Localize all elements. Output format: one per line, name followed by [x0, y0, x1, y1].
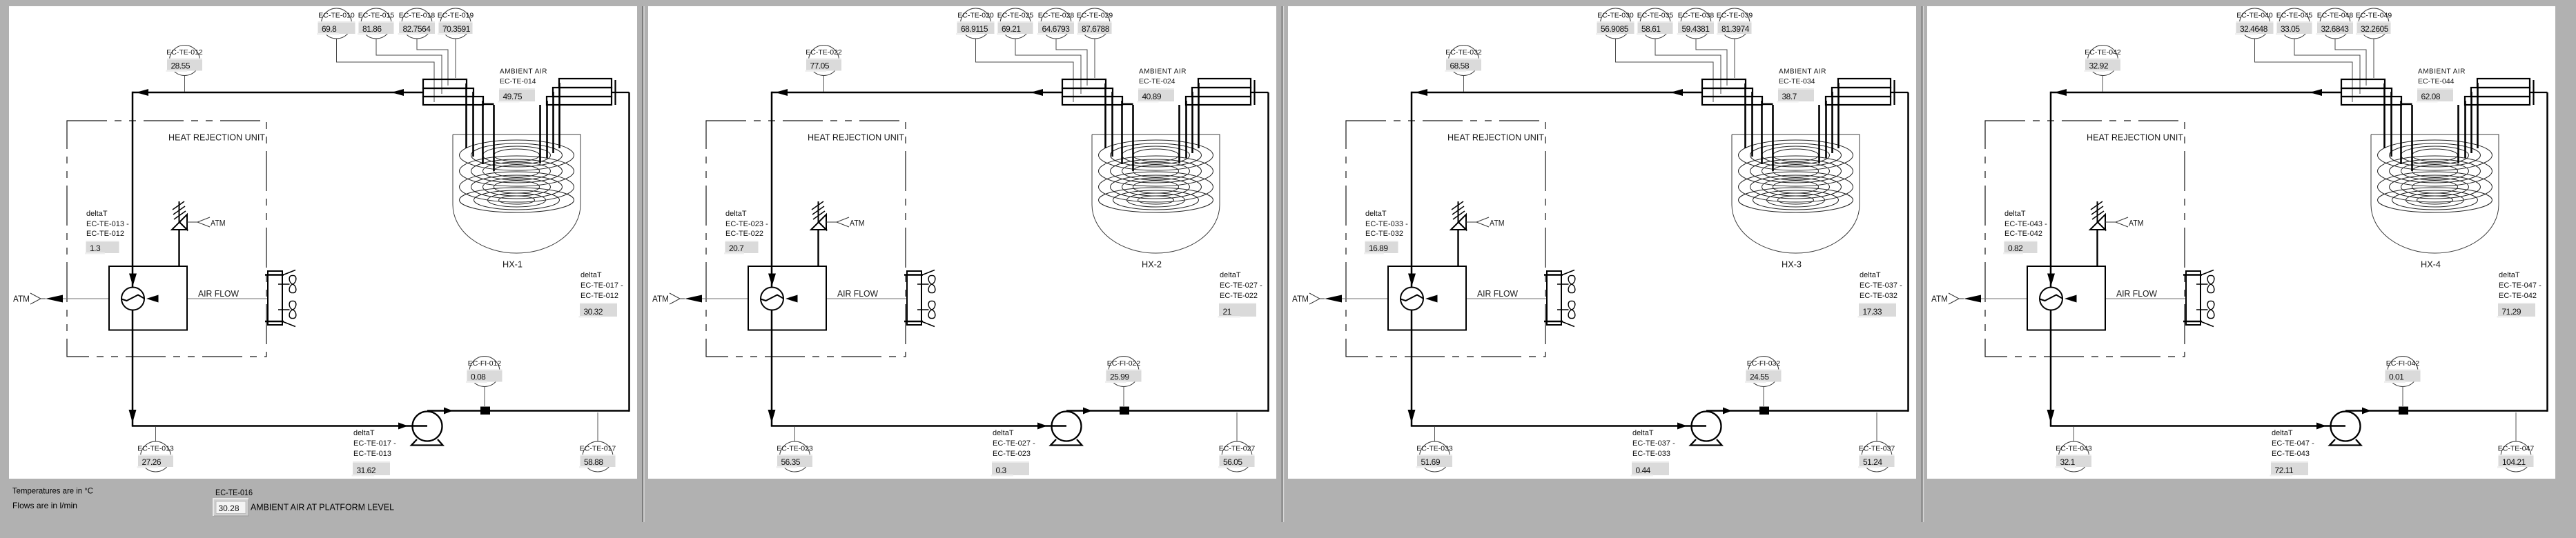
- svg-text:EC-FI-032: EC-FI-032: [1747, 359, 1781, 368]
- left bank down tubes panel 2: [1106, 83, 1133, 171]
- flow arrow top near corner panel 4: [2054, 89, 2067, 96]
- svg-text:deltaT: deltaT: [1220, 271, 1241, 279]
- deltaT left value panel 4: [2003, 241, 2038, 255]
- svg-text:EC-TE-042: EC-TE-042: [2499, 292, 2537, 300]
- svg-text:21: 21: [1223, 307, 1232, 317]
- flow arrow left riser down panel 1: [129, 410, 137, 423]
- ATM exhaust arrowhead panel 1: [46, 295, 63, 303]
- flow arrow top near HX panel 1: [391, 89, 404, 96]
- HX vessel outline panel 1: [453, 134, 580, 253]
- svg-text:EC-TE-013: EC-TE-013: [137, 445, 174, 453]
- svg-text:deltaT: deltaT: [1860, 271, 1881, 279]
- svg-text:87.6788: 87.6788: [1082, 24, 1110, 34]
- svg-text:EC-TE-013: EC-TE-013: [353, 450, 391, 458]
- vent stub panel 4: [2097, 201, 2098, 222]
- svg-text:EC-TE-027: EC-TE-027: [1219, 445, 1256, 453]
- svg-text:EC-TE-025: EC-TE-025: [997, 12, 1034, 20]
- pipe pump outlet run panel 4: [2345, 410, 2548, 412]
- svg-text:0.82: 0.82: [2008, 243, 2023, 253]
- svg-text:ATM: ATM: [850, 219, 865, 228]
- vent stub panel 3: [1458, 201, 1459, 222]
- left tube bank panel 1: [423, 79, 483, 105]
- svg-text:30.32: 30.32: [584, 307, 603, 317]
- svg-text:EC-TE-033 -: EC-TE-033 -: [1365, 220, 1408, 228]
- air flow line panel 4: [1981, 298, 2186, 299]
- svg-text:HEAT REJECTION UNIT: HEAT REJECTION UNIT: [808, 132, 904, 143]
- svg-text:EC-TE-042: EC-TE-042: [2085, 48, 2121, 57]
- air flow line panel 1: [63, 298, 268, 299]
- svg-text:EC-TE-024: EC-TE-024: [1139, 77, 1175, 86]
- svg-text:70.3591: 70.3591: [442, 24, 471, 34]
- svg-text:EC-TE-032: EC-TE-032: [1860, 292, 1897, 300]
- flow sensor EC-FI-042: [2384, 357, 2421, 407]
- leader lines top sensors panel 2: [976, 39, 1095, 102]
- sensor EC-TE-042: [2085, 46, 2121, 92]
- svg-text:AMBIENT AIR: AMBIENT AIR: [2418, 68, 2466, 76]
- panel 2 background: [648, 6, 1276, 479]
- flow arrow top near corner panel 1: [136, 89, 148, 96]
- deltaT bottom value panel 4: [2270, 461, 2309, 477]
- louver box panel 1: [268, 271, 282, 325]
- flow arrow top near HX panel 2: [1031, 89, 1043, 96]
- svg-text:deltaT: deltaT: [580, 271, 602, 279]
- flow element square panel 4: [2399, 407, 2408, 415]
- vent valve triangles panel 1: [172, 222, 187, 230]
- svg-text:68.58: 68.58: [1450, 61, 1470, 70]
- HX coil panel 1: [460, 140, 574, 212]
- svg-text:64.6793: 64.6793: [1042, 24, 1071, 34]
- svg-text:AMBIENT AIR: AMBIENT AIR: [1139, 68, 1187, 76]
- leader lines top sensors panel 1: [337, 39, 456, 102]
- svg-text:EC-TE-017: EC-TE-017: [580, 445, 616, 453]
- svg-text:EC-TE-043: EC-TE-043: [2272, 450, 2310, 458]
- sensor EC-TE-049: [2356, 8, 2392, 39]
- svg-text:EC-TE-043: EC-TE-043: [2056, 445, 2092, 453]
- flow arrow bottom before pump panel 4: [2316, 423, 2326, 430]
- svg-text:EC-TE-022: EC-TE-022: [1220, 292, 1258, 300]
- svg-text:51.24: 51.24: [1863, 457, 1882, 467]
- flow arrow bottom before pump panel 1: [398, 423, 408, 430]
- louver box panel 3: [1547, 271, 1561, 325]
- pipe left riser panel 4: [2050, 92, 2052, 426]
- pipe left riser panel 2: [771, 92, 773, 426]
- ATM exhaust wedge panel 2: [670, 293, 680, 304]
- flow arrow top near HX panel 4: [2310, 89, 2322, 96]
- pipe pump outlet run panel 3: [1706, 410, 1909, 412]
- deltaT right value panel 3: [1858, 303, 1897, 318]
- sensor EC-TE-033: [1416, 427, 1453, 472]
- svg-text:32.1: 32.1: [2060, 457, 2076, 467]
- svg-text:EC-TE-033: EC-TE-033: [1416, 445, 1453, 453]
- pipe HX outlet connector panel 2: [1251, 92, 1269, 93]
- svg-text:EC-TE-030: EC-TE-030: [1597, 12, 1634, 20]
- sensor EC-TE-035: [1637, 8, 1673, 39]
- sensor EC-TE-028: [1037, 8, 1075, 39]
- svg-text:EC-TE-017 -: EC-TE-017 -: [353, 439, 396, 448]
- louver box panel 2: [907, 271, 921, 325]
- svg-text:EC-TE-042: EC-TE-042: [2004, 230, 2042, 238]
- ATM exhaust wedge panel 4: [1949, 293, 1959, 304]
- svg-text:EC-TE-037 -: EC-TE-037 -: [1860, 281, 1902, 290]
- flow arrow left riser down panel 2: [768, 410, 776, 423]
- svg-text:ATM: ATM: [13, 295, 30, 304]
- HX coil panel 3: [1739, 140, 1853, 212]
- svg-text:EC-FI-022: EC-FI-022: [1107, 359, 1141, 368]
- sensor EC-TE-032: [1445, 46, 1482, 92]
- svg-text:EC-TE-049: EC-TE-049: [2356, 12, 2392, 20]
- vent hatches panel 2: [812, 201, 825, 219]
- svg-text:ATM: ATM: [652, 295, 669, 304]
- svg-text:59.4381: 59.4381: [1682, 24, 1710, 34]
- svg-text:33.05: 33.05: [2281, 24, 2300, 34]
- svg-text:EC-TE-020: EC-TE-020: [957, 12, 994, 20]
- svg-text:56.35: 56.35: [781, 457, 801, 467]
- deltaT right value panel 1: [579, 303, 618, 318]
- pipe bottom run to pump panel 2: [771, 425, 1066, 427]
- svg-text:deltaT: deltaT: [1365, 210, 1387, 218]
- pipe right riser panel 4: [2546, 92, 2548, 412]
- svg-text:24.55: 24.55: [1750, 372, 1769, 381]
- flow arrow left riser down panel 4: [2047, 410, 2055, 423]
- flow sensor EC-FI-032: [1745, 357, 1782, 407]
- flow arrow after pump panel 2: [1083, 408, 1092, 415]
- HX vessel outline panel 4: [2371, 134, 2499, 253]
- pipe HX outlet connector panel 3: [1891, 92, 1909, 93]
- sensor EC-TE-023: [777, 427, 813, 472]
- svg-text:EC-TE-032: EC-TE-032: [1445, 48, 1482, 57]
- ATM exhaust arrowhead panel 2: [685, 295, 702, 303]
- ambient air value EC-TE-024: [1138, 88, 1175, 103]
- svg-text:58.61: 58.61: [1641, 24, 1661, 34]
- left tube bank panel 4: [2341, 79, 2401, 105]
- svg-text:EC-TE-034: EC-TE-034: [1779, 77, 1815, 86]
- svg-text:56.05: 56.05: [1223, 457, 1242, 467]
- flow element square panel 1: [480, 407, 490, 415]
- arrow into fan panel 3: [1408, 274, 1416, 286]
- svg-text:deltaT: deltaT: [2499, 271, 2520, 279]
- svg-text:deltaT: deltaT: [725, 210, 747, 218]
- vent stub panel 2: [818, 201, 819, 222]
- sensor EC-TE-022: [806, 46, 842, 92]
- svg-text:EC-TE-032: EC-TE-032: [1365, 230, 1403, 238]
- louver lower fan glyph panel 2: [917, 301, 935, 318]
- svg-text:20.7: 20.7: [729, 243, 744, 253]
- svg-text:AIR FLOW: AIR FLOW: [837, 288, 879, 299]
- panel divider at x=931: [642, 6, 643, 522]
- svg-text:EC-FI-042: EC-FI-042: [2386, 359, 2420, 368]
- svg-text:EC-TE-038: EC-TE-038: [1678, 12, 1715, 20]
- svg-text:EC-TE-028: EC-TE-028: [1038, 12, 1075, 20]
- svg-text:HX-4: HX-4: [2421, 260, 2441, 270]
- ATM exhaust arrowhead panel 4: [1964, 295, 1981, 303]
- louver upper fan glyph panel 3: [1557, 275, 1575, 292]
- louver lower fan glyph panel 4: [2196, 301, 2214, 318]
- ambient air value EC-TE-034: [1777, 88, 1815, 103]
- svg-text:EC-TE-048: EC-TE-048: [2317, 12, 2354, 20]
- svg-text:EC-TE-012: EC-TE-012: [580, 292, 618, 300]
- vent ATM wedge panel 3: [1476, 217, 1489, 227]
- left tube bank panel 3: [1702, 79, 1762, 105]
- svg-text:EC-TE-023: EC-TE-023: [993, 450, 1031, 458]
- pipe top run panel 1: [133, 92, 423, 94]
- deltaT right value panel 4: [2497, 303, 2536, 318]
- right bank down tubes panel 3: [1819, 83, 1839, 163]
- louver lower fan glyph panel 1: [278, 301, 296, 318]
- flow arrow bottom before pump panel 2: [1037, 423, 1047, 430]
- pipe right riser panel 3: [1907, 92, 1909, 412]
- HX vessel outline panel 3: [1732, 134, 1860, 253]
- svg-text:49.75: 49.75: [503, 92, 523, 101]
- fan impeller circle panel 3: [1401, 288, 1423, 310]
- svg-text:AMBIENT AIR: AMBIENT AIR: [500, 68, 547, 76]
- flow element square panel 2: [1120, 407, 1129, 415]
- sensor EC-TE-018: [398, 8, 436, 39]
- arrow into fan panel 2: [768, 274, 776, 286]
- fan impeller circle panel 1: [121, 288, 144, 310]
- vent pipe panel 1: [178, 230, 179, 266]
- flow arrow bottom before pump panel 3: [1677, 423, 1687, 430]
- heat rejection unit dashed boundary panel 2: [706, 121, 906, 357]
- svg-text:30.28: 30.28: [219, 504, 240, 513]
- svg-text:69.8: 69.8: [322, 24, 337, 34]
- svg-text:EC-TE-027 -: EC-TE-027 -: [1220, 281, 1262, 290]
- svg-text:Temperatures are in °C: Temperatures are in °C: [12, 486, 93, 496]
- svg-text:72.11: 72.11: [2275, 466, 2294, 475]
- svg-text:HEAT REJECTION UNIT: HEAT REJECTION UNIT: [2087, 132, 2183, 143]
- air flow line panel 3: [1342, 298, 1547, 299]
- deltaT bottom value panel 2: [991, 461, 1030, 477]
- deltaT bottom value panel 3: [1631, 461, 1670, 477]
- svg-text:0.08: 0.08: [471, 372, 486, 381]
- numeric control EC-TE-016: [213, 499, 248, 516]
- heat rejection unit dashed boundary panel 4: [1985, 121, 2185, 357]
- fan impeller circle panel 2: [761, 288, 783, 310]
- sensor EC-TE-030: [1596, 8, 1635, 39]
- svg-text:deltaT: deltaT: [86, 210, 108, 218]
- svg-text:EC-TE-037 -: EC-TE-037 -: [1632, 439, 1675, 448]
- svg-text:EC-TE-019: EC-TE-019: [438, 12, 474, 20]
- pump P1 body: [413, 412, 442, 441]
- arrow air intake panel 1: [146, 295, 159, 303]
- HX coil panel 4: [2378, 140, 2492, 212]
- svg-text:EC-TE-022: EC-TE-022: [806, 48, 842, 57]
- deltaT bottom value panel 1: [352, 461, 391, 477]
- svg-text:EC-TE-039: EC-TE-039: [1717, 12, 1753, 20]
- pipe right riser panel 1: [628, 92, 630, 412]
- pipe pump outlet run panel 2: [1066, 410, 1269, 412]
- sensor EC-TE-029: [1077, 8, 1113, 39]
- left bank down tubes panel 4: [2385, 83, 2412, 171]
- right tube bank panel 3: [1826, 79, 1895, 105]
- ATM exhaust wedge panel 3: [1309, 293, 1320, 304]
- vent valve triangles panel 3: [1451, 222, 1466, 230]
- vent stub panel 1: [179, 201, 180, 222]
- svg-text:AIR FLOW: AIR FLOW: [1477, 288, 1519, 299]
- fan unit box panel 1: [109, 266, 187, 330]
- svg-text:16.89: 16.89: [1369, 243, 1388, 253]
- right bank down tubes panel 1: [540, 83, 560, 163]
- arrow air intake panel 4: [2065, 295, 2077, 303]
- svg-text:EC-TE-047: EC-TE-047: [2498, 445, 2535, 453]
- flow arrow left riser down panel 3: [1408, 410, 1416, 423]
- flow arrow top near corner panel 2: [775, 89, 788, 96]
- svg-text:EC-TE-010: EC-TE-010: [318, 12, 355, 20]
- left bank down tubes panel 1: [467, 83, 494, 171]
- panel 1 background: [9, 6, 637, 479]
- fan unit box panel 4: [2027, 266, 2105, 330]
- svg-text:27.26: 27.26: [142, 457, 162, 467]
- leader lines top sensors panel 3: [1616, 39, 1735, 102]
- louver lower fan glyph panel 3: [1557, 301, 1575, 318]
- svg-text:deltaT: deltaT: [2004, 210, 2026, 218]
- svg-text:EC-TE-037: EC-TE-037: [1859, 445, 1895, 453]
- svg-text:25.99: 25.99: [1110, 372, 1129, 381]
- vent hatches panel 4: [2091, 201, 2104, 219]
- fan unit box panel 2: [748, 266, 826, 330]
- sensor EC-TE-012: [166, 46, 203, 92]
- svg-text:82.7564: 82.7564: [403, 24, 431, 34]
- sensor EC-TE-038: [1677, 8, 1715, 39]
- flow arrow top near corner panel 3: [1415, 89, 1427, 96]
- left tube bank panel 2: [1062, 79, 1122, 105]
- ATM exhaust wedge panel 1: [30, 293, 41, 304]
- arrow into fan panel 1: [129, 274, 137, 286]
- sensor EC-TE-020: [956, 8, 995, 39]
- flow arrow after pump panel 1: [444, 408, 453, 415]
- ambient air value EC-TE-044: [2417, 88, 2454, 103]
- vent pipe panel 4: [2096, 230, 2098, 266]
- vent pipe panel 3: [1457, 230, 1458, 266]
- right bank down tubes panel 4: [2459, 83, 2478, 163]
- heat rejection unit dashed boundary panel 3: [1346, 121, 1545, 357]
- svg-text:HEAT REJECTION UNIT: HEAT REJECTION UNIT: [1447, 132, 1544, 143]
- vent hatches panel 3: [1452, 201, 1465, 219]
- svg-text:81.3974: 81.3974: [1721, 24, 1750, 34]
- vent ATM wedge panel 2: [837, 217, 849, 227]
- leader lines top sensors panel 4: [2255, 39, 2374, 102]
- svg-text:EC-TE-029: EC-TE-029: [1077, 12, 1113, 20]
- HX vessel outline panel 2: [1092, 134, 1220, 253]
- svg-text:32.4648: 32.4648: [2240, 24, 2268, 34]
- fan unit box panel 3: [1388, 266, 1466, 330]
- svg-text:ATM: ATM: [2129, 219, 2144, 228]
- svg-text:51.69: 51.69: [1421, 457, 1441, 467]
- pipe right riser panel 2: [1267, 92, 1269, 412]
- flow sensor EC-FI-022: [1105, 357, 1142, 407]
- svg-text:deltaT: deltaT: [2272, 429, 2293, 437]
- svg-text:AIR FLOW: AIR FLOW: [2116, 288, 2158, 299]
- svg-text:0.01: 0.01: [2389, 372, 2404, 381]
- svg-text:HX-3: HX-3: [1782, 260, 1802, 270]
- deltaT left value panel 3: [1364, 241, 1398, 255]
- svg-text:EC-TE-012: EC-TE-012: [86, 230, 124, 238]
- sensor EC-TE-040: [2235, 8, 2274, 39]
- svg-text:EC-TE-014: EC-TE-014: [500, 77, 536, 86]
- svg-text:HX-1: HX-1: [502, 260, 523, 270]
- svg-text:EC-TE-015: EC-TE-015: [358, 12, 395, 20]
- svg-text:ATM: ATM: [211, 219, 226, 228]
- svg-text:62.08: 62.08: [2421, 92, 2441, 101]
- svg-text:EC-TE-047 -: EC-TE-047 -: [2272, 439, 2314, 448]
- pipe bottom run to pump panel 1: [132, 425, 427, 427]
- svg-text:EC-TE-013 -: EC-TE-013 -: [86, 220, 129, 228]
- panel divider at x=2784.5: [1922, 6, 1923, 522]
- svg-text:EC-TE-012: EC-TE-012: [166, 48, 203, 57]
- svg-text:EC-TE-043 -: EC-TE-043 -: [2004, 220, 2047, 228]
- heat rejection unit dashed boundary panel 1: [67, 121, 266, 357]
- pump P2 body: [1052, 412, 1082, 441]
- svg-text:38.7: 38.7: [1782, 92, 1797, 101]
- svg-text:deltaT: deltaT: [1632, 429, 1654, 437]
- sensor EC-TE-015: [358, 8, 394, 39]
- svg-text:ATM: ATM: [1292, 295, 1309, 304]
- svg-text:77.05: 77.05: [810, 61, 830, 70]
- vent pipe panel 2: [817, 230, 819, 266]
- svg-text:104.21: 104.21: [2502, 457, 2526, 467]
- HX coil panel 2: [1099, 140, 1213, 212]
- air flow line panel 2: [702, 298, 907, 299]
- louver upper fan glyph panel 4: [2196, 275, 2214, 292]
- svg-text:AMBIENT AIR: AMBIENT AIR: [1779, 68, 1826, 76]
- svg-text:EC-TE-044: EC-TE-044: [2418, 77, 2455, 86]
- arrow air intake panel 2: [786, 295, 798, 303]
- svg-text:0.3: 0.3: [996, 466, 1007, 475]
- sensor EC-TE-010: [317, 8, 355, 39]
- deltaT left value panel 1: [85, 241, 119, 255]
- svg-text:EC-TE-040: EC-TE-040: [2236, 12, 2273, 20]
- svg-text:31.62: 31.62: [357, 466, 376, 475]
- fan impeller circle panel 4: [2040, 288, 2062, 310]
- vent valve triangles panel 2: [811, 222, 826, 230]
- ambient air value EC-TE-014: [498, 88, 536, 103]
- louver upper fan glyph panel 1: [278, 275, 296, 292]
- pipe top run panel 3: [1412, 92, 1702, 94]
- pump P4 body: [2331, 412, 2361, 441]
- flow arrow after pump panel 3: [1723, 408, 1732, 415]
- panel 3 background: [1288, 6, 1916, 479]
- deltaT right value panel 2: [1218, 303, 1257, 318]
- svg-text:32.2605: 32.2605: [2361, 24, 2389, 34]
- pipe top run panel 2: [772, 92, 1062, 94]
- arrow into fan panel 4: [2047, 274, 2055, 286]
- svg-text:0.44: 0.44: [1636, 466, 1651, 475]
- vent valve triangles panel 4: [2090, 222, 2105, 230]
- svg-text:EC-FI-012: EC-FI-012: [468, 359, 502, 368]
- vent ATM wedge panel 4: [2116, 217, 2128, 227]
- svg-text:EC-TE-047 -: EC-TE-047 -: [2499, 281, 2541, 290]
- pipe top run panel 4: [2051, 92, 2341, 94]
- pipe HX outlet connector panel 4: [2530, 92, 2548, 93]
- svg-text:EC-TE-022: EC-TE-022: [725, 230, 763, 238]
- svg-text:EC-TE-023 -: EC-TE-023 -: [725, 220, 768, 228]
- louver upper fan glyph panel 2: [917, 275, 935, 292]
- svg-text:deltaT: deltaT: [993, 429, 1014, 437]
- panel divider at x=1857.5: [1282, 6, 1283, 522]
- sensor EC-TE-013: [137, 427, 174, 472]
- flow element square panel 3: [1759, 407, 1769, 415]
- right tube bank panel 2: [1186, 79, 1255, 105]
- pipe HX outlet connector panel 1: [612, 92, 630, 93]
- svg-text:EC-TE-027 -: EC-TE-027 -: [993, 439, 1035, 448]
- svg-text:32.92: 32.92: [2089, 61, 2109, 70]
- svg-text:58.88: 58.88: [584, 457, 603, 467]
- louver box panel 4: [2186, 271, 2201, 325]
- svg-text:28.55: 28.55: [171, 61, 191, 70]
- sensor EC-TE-047: [2497, 412, 2534, 472]
- svg-text:EC-TE-045: EC-TE-045: [2276, 12, 2313, 20]
- pipe left riser panel 3: [1411, 92, 1413, 426]
- flow arrow top near HX panel 3: [1670, 89, 1683, 96]
